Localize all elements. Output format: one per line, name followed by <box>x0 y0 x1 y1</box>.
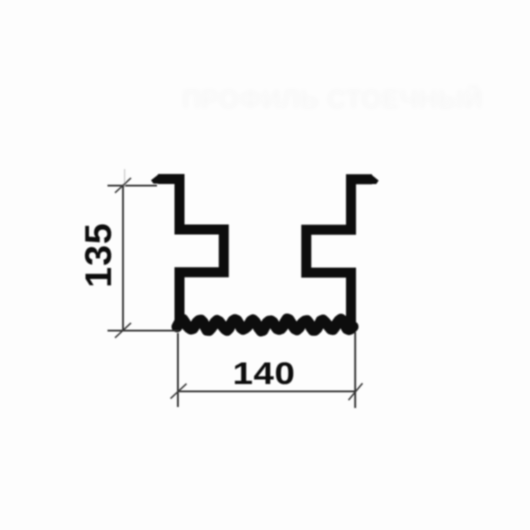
dim 135: bottom tick <box>115 323 131 338</box>
right lip tip <box>372 175 379 184</box>
profile wavy bottom <box>177 319 353 331</box>
profile right wall outline <box>306 179 372 327</box>
left lip tip <box>151 174 159 183</box>
profile left wall outline <box>158 179 224 327</box>
svg-text:135: 135 <box>77 222 119 288</box>
dim 135: bottom extension line <box>108 330 180 332</box>
dim 140: right tick <box>349 383 363 400</box>
dim 135: top extension line <box>108 185 158 187</box>
dim 140: left extension line <box>177 333 179 407</box>
dim 135: dimension line faint overshoot <box>124 169 126 186</box>
dim 140: left tick <box>171 384 187 399</box>
svg-text:ПРОФИЛЬ СТОЕЧНЫЙ: ПРОФИЛЬ СТОЕЧНЫЙ <box>182 84 483 114</box>
svg-text:140: 140 <box>233 356 296 391</box>
dim 135: dimension line <box>122 186 124 331</box>
dim 135: top tick <box>115 178 131 193</box>
dim 140: right extension line <box>354 332 356 408</box>
faint watermark band <box>182 84 483 114</box>
dim 140: dimension line <box>178 390 355 392</box>
